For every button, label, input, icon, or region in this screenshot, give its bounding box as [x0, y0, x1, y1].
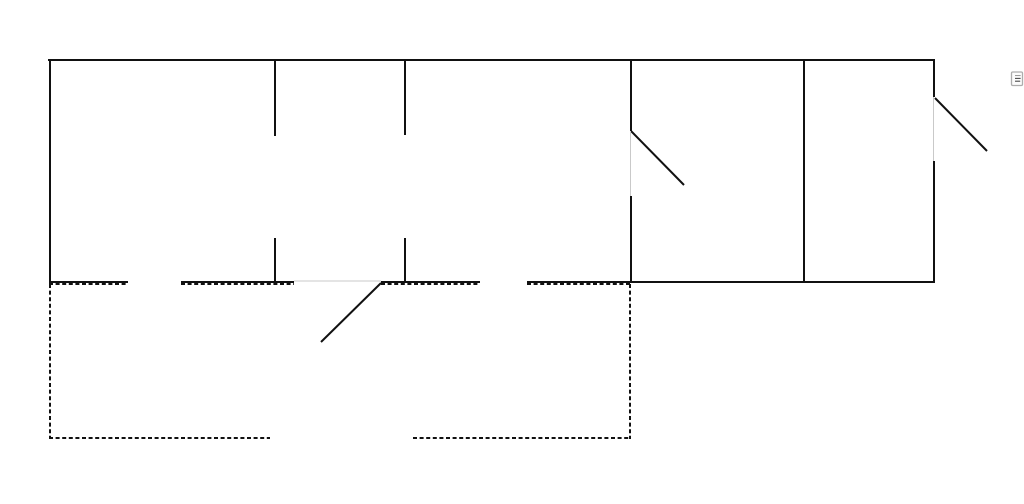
wall: bottom exterior segment 4 [527, 281, 935, 283]
wall: interior partition B upper stub [404, 60, 406, 135]
wall: bottom exterior segment 2 [181, 281, 294, 283]
deck outline: top dashed overlay segment 4 [527, 283, 631, 285]
wall: right exterior lower segment [933, 161, 935, 283]
wall: right exterior upper segment [933, 59, 935, 97]
deck outline: bottom dashed segment 1 [49, 437, 270, 439]
wall: bottom exterior segment 3 [381, 281, 480, 283]
deck outline: left dashed side [49, 284, 51, 439]
wall: interior partition D [803, 59, 805, 283]
deck outline: bottom dashed segment 2 [413, 437, 631, 439]
door opening threshold: bottom wall [294, 280, 381, 282]
wall: top exterior [48, 59, 935, 61]
wall: interior partition B lower stub [404, 238, 406, 283]
door leaf: exterior door on right wall [935, 98, 987, 151]
wall: bottom exterior segment 1 [49, 281, 128, 283]
deck outline: top dashed overlay segment 1 [49, 283, 128, 285]
door leaf: interior door on partition C [631, 131, 684, 185]
deck outline: top dashed overlay segment 2 [181, 283, 294, 285]
deck outline: top dashed overlay segment 3 [381, 283, 480, 285]
wall: interior partition A lower stub [274, 238, 276, 283]
wall: interior partition C upper segment [630, 60, 632, 131]
annotation note icon [1012, 72, 1023, 86]
door leaf: bottom exterior door [321, 283, 381, 342]
door opening threshold: right wall [933, 97, 935, 161]
door opening threshold: partition C [630, 131, 632, 196]
wall: interior partition C lower segment [630, 196, 632, 283]
deck outline: right dashed side [629, 284, 631, 439]
wall: left exterior [49, 59, 51, 283]
wall: interior partition A upper stub [274, 60, 276, 136]
